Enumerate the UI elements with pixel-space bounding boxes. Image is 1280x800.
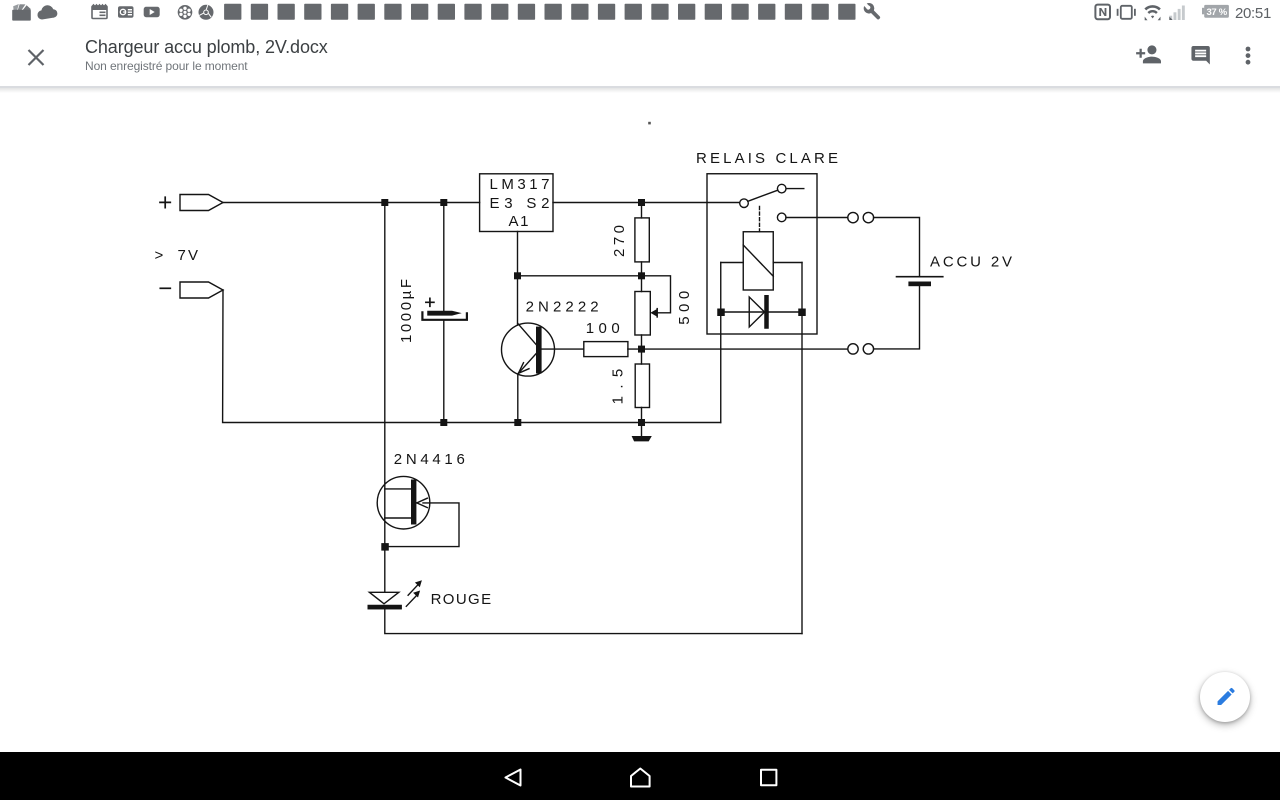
svg-text:ACCU 2V: ACCU 2V (930, 254, 1012, 271)
svg-text:270: 270 (611, 225, 628, 257)
svg-text:E3 S2: E3 S2 (490, 195, 550, 212)
svg-text:1000µF: 1000µF (398, 279, 415, 343)
svg-text:2N4416: 2N4416 (394, 451, 465, 468)
svg-text:500: 500 (676, 291, 693, 325)
svg-text:ROUGE: ROUGE (431, 591, 492, 608)
svg-text:A1: A1 (509, 213, 529, 230)
svg-text:7V: 7V (178, 247, 199, 264)
svg-text:1.5: 1.5 (610, 369, 627, 405)
svg-text:>: > (155, 247, 164, 264)
svg-text:LM317: LM317 (490, 176, 550, 193)
svg-text:RELAIS CLARE: RELAIS CLARE (696, 150, 838, 167)
svg-text:100: 100 (586, 320, 620, 337)
svg-text:2N2222: 2N2222 (526, 299, 599, 316)
